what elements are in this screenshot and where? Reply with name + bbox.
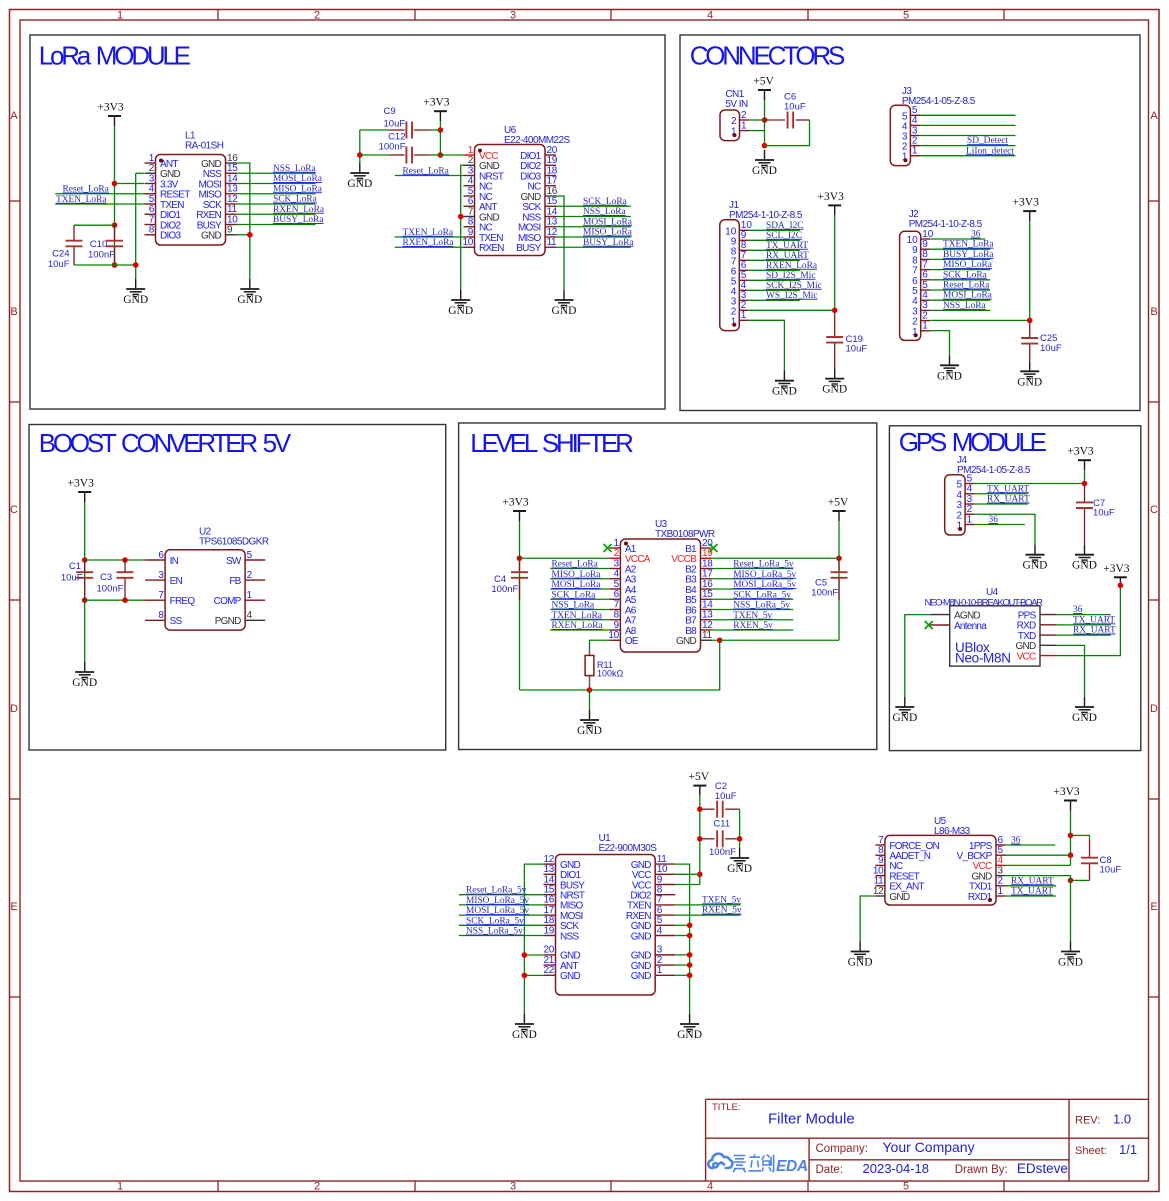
svg-text:GND: GND — [72, 677, 97, 689]
svg-text:5: 5 — [247, 550, 253, 561]
wire AGND to ground — [905, 615, 930, 697]
capacitor C9 leads — [390, 129, 405, 131]
svg-text:SCK_LoRa_5v: SCK_LoRa_5v — [733, 590, 791, 600]
J2 pin 5 — [912, 280, 930, 297]
level shifter U3 TXB0108PWR pin 17 (B3) — [685, 569, 713, 586]
svg-text:MOSI_LoRa: MOSI_LoRa — [943, 291, 993, 301]
module U5 L86-M33 pin 5 (V_BCKP) — [957, 845, 1006, 862]
wire BUSY_LoRa (J2) — [930, 258, 990, 260]
section box: LoRa MODULE — [30, 35, 665, 409]
svg-text:1: 1 — [117, 10, 123, 22]
capacitor C19 — [826, 337, 843, 343]
level shifter U3 TXB0108PWR pin 14 (B6) — [685, 599, 713, 616]
wire SCL_I2C (J1) — [749, 239, 800, 241]
svg-text:GND: GND — [822, 384, 847, 396]
svg-text:NEO-M8N-0-10-BREAKOUT-BOAR: NEO-M8N-0-10-BREAKOUT-BOAR — [925, 597, 1044, 608]
wire J1 pin2 to +3V3 — [749, 309, 835, 311]
capacitor C11 leads — [700, 838, 715, 840]
ground (U1 left) — [512, 1014, 537, 1041]
svg-text:2: 2 — [314, 1181, 320, 1193]
junction — [112, 262, 118, 268]
svg-text:C: C — [10, 504, 18, 516]
svg-text:EN: EN — [170, 576, 183, 587]
svg-text:RXEN_LoRa: RXEN_LoRa — [766, 261, 818, 271]
svg-text:GND: GND — [448, 305, 473, 317]
junction — [687, 962, 693, 968]
junction — [522, 952, 528, 958]
svg-text:MOSI_LoRa: MOSI_LoRa — [583, 217, 633, 227]
J2 pin 1 — [912, 321, 930, 338]
module U1 E22-900M30S pin 17 (MOSI) — [543, 905, 582, 922]
svg-text:+3V3: +3V3 — [423, 97, 450, 109]
svg-text:NSS_LoRa: NSS_LoRa — [552, 601, 596, 611]
wire RX_UART (U4) — [1057, 634, 1111, 636]
J2 pin 2 — [912, 310, 930, 327]
svg-text:10uF: 10uF — [846, 344, 868, 355]
J1 pin 9 — [731, 230, 749, 247]
junction — [697, 836, 703, 842]
wire U1 GND pin — [675, 935, 689, 937]
module U6 E22-400MM22S pin 3 (NRST) — [464, 165, 504, 182]
svg-text:Reset_LoRa: Reset_LoRa — [403, 166, 450, 176]
svg-text:LoRa MODULE: LoRa MODULE — [39, 41, 191, 71]
svg-text:AGND: AGND — [954, 610, 980, 621]
svg-text:NSS_LoRa: NSS_LoRa — [273, 164, 317, 174]
svg-text:SCL_I2C: SCL_I2C — [766, 231, 802, 241]
svg-text:GND: GND — [1072, 560, 1097, 572]
svg-text:TXEN_LoRa: TXEN_LoRa — [943, 240, 994, 250]
svg-text:+3V3: +3V3 — [502, 497, 529, 509]
ground (AGND) — [892, 697, 917, 724]
junction — [587, 687, 593, 693]
wire J2 pin1 GND — [930, 331, 949, 356]
section box: CONNECTORS — [680, 35, 1140, 411]
level shifter U3 TXB0108PWR pin 8 (A7) — [609, 610, 636, 627]
svg-text:MOSI_LoRa: MOSI_LoRa — [552, 580, 602, 590]
regulator U2 TPS61085DGKR pin 1 (COMP) — [214, 590, 266, 607]
J2 pin 6 — [912, 270, 930, 287]
svg-text:10uF: 10uF — [1093, 508, 1115, 519]
svg-text:E22-900M30S: E22-900M30S — [599, 843, 658, 854]
svg-text:MISO_LoRa: MISO_LoRa — [552, 570, 602, 580]
power +3V3 (U4) — [1103, 563, 1130, 588]
J4 pin-1 mark — [958, 527, 962, 531]
J1 pin 2 — [731, 300, 749, 317]
module L1 RA-01SH pin 11 (RXEN) — [196, 204, 237, 221]
junction — [697, 806, 703, 812]
wire U4 GND down — [1057, 645, 1085, 697]
module U6 E22-400MM22S pin 5 (NC) — [464, 186, 493, 203]
wire Reset_LoRa (J2) — [930, 289, 990, 291]
svg-text:2: 2 — [314, 10, 320, 22]
capacitor C5 — [831, 572, 848, 578]
svg-text:A: A — [10, 110, 18, 122]
wire U5 GND down — [1006, 876, 1071, 942]
capacitor C2 — [717, 801, 723, 818]
svg-text:REV:: REV: — [1075, 1115, 1100, 1127]
J1 pin 6 — [731, 260, 749, 277]
module U5 L86-M33 — [885, 835, 996, 905]
junction — [737, 836, 743, 842]
svg-text:GND: GND — [848, 957, 873, 969]
module U6 E22-400MM22S pin 16 (GND) — [521, 186, 558, 203]
svg-text:RX_UART: RX_UART — [1011, 876, 1054, 886]
capacitor C12 leads — [390, 154, 405, 156]
svg-text:7: 7 — [158, 590, 164, 601]
module U5 L86-M33 pin 12 (GND) — [873, 886, 910, 903]
wire CN1 pin2 to +5V — [749, 119, 765, 121]
wire TXEN_LoRa to U6 pin9 — [395, 236, 464, 238]
U4 pin RXD — [1040, 624, 1057, 626]
svg-text:PGND: PGND — [215, 616, 241, 627]
svg-text:Reset_LoRa_5v: Reset_LoRa_5v — [733, 560, 794, 570]
wire +3V3 to VCCA — [520, 557, 611, 559]
module U1 E22-900M30S pin 12 (GND) — [543, 854, 580, 871]
junction — [762, 143, 768, 149]
capacitor C2 leads — [700, 808, 715, 810]
J4 pin 5 — [957, 473, 975, 490]
wire net 36 (U5 1PPS) — [1006, 844, 1056, 846]
module L1 RA-01SH pin 15 (NSS) — [203, 163, 239, 180]
svg-text:11: 11 — [547, 237, 558, 248]
wire U5 pin12 GND — [860, 896, 875, 942]
svg-text:BUSY_LoRa: BUSY_LoRa — [943, 250, 994, 260]
wire U3 GND to bottom rail — [520, 640, 720, 690]
svg-text:RA-01SH: RA-01SH — [185, 141, 224, 152]
wire Reset_LoRa_5v (U1) — [459, 894, 544, 896]
svg-text:D: D — [10, 703, 18, 715]
level shifter U3 TXB0108PWR pin 11 (GND) — [676, 630, 713, 647]
J2 — [900, 231, 921, 340]
svg-text:2: 2 — [731, 116, 737, 127]
svg-text:Reset_LoRa: Reset_LoRa — [943, 281, 990, 291]
power +3V3 (U6) — [423, 97, 450, 122]
wire MOSI_LoRa (J2) — [930, 299, 990, 301]
module U5 L86-M33 pin 2 (TXD1) — [969, 876, 1006, 893]
module U6 E22-400MM22S pin 8 (NC) — [464, 217, 493, 234]
wire L1 pin16 GND down — [237, 163, 250, 279]
svg-text:C24: C24 — [52, 249, 69, 260]
svg-text:+5V: +5V — [753, 76, 774, 88]
svg-text:1: 1 — [657, 965, 663, 976]
module U5 L86-M33 pin 3 (GND) — [972, 865, 1006, 882]
svg-text:SS: SS — [170, 616, 183, 627]
module U6 E22-400MM22S pin 10 (RXEN) — [462, 237, 504, 254]
module L1 RA-01SH pin 10 (BUSY) — [197, 214, 238, 231]
svg-text:4: 4 — [707, 10, 713, 22]
module U1 E22-900M30S pin 7 (TXEN) — [627, 895, 675, 912]
module L1 RA-01SH pin 5 (TXEN) — [145, 194, 185, 211]
svg-text:MISO_LoRa_5v: MISO_LoRa_5v — [733, 570, 796, 580]
J2 pin 4 — [912, 290, 930, 307]
wire NSS_LoRa_5v (U3) — [712, 609, 794, 611]
svg-text:GND: GND — [631, 971, 652, 982]
wire U5 VCC to +3V3 — [1006, 864, 1071, 866]
wire bottom rail to GND — [74, 264, 136, 266]
svg-text:GND: GND — [577, 725, 602, 737]
wire J3 pin 3 — [920, 135, 1016, 137]
ground (J1) — [772, 371, 797, 398]
module U6 E22-400MM22S pin 2 (GND) — [464, 155, 500, 172]
capacitor C12 — [406, 147, 412, 164]
wire NSS_LoRa (U6) — [556, 216, 631, 218]
module U5 L86-M33 pin 8 (AADET_N) — [875, 845, 930, 862]
J1 pin-1 mark — [732, 323, 736, 327]
wire MISO_LoRa — [237, 193, 316, 195]
power +3V3 (U2) — [68, 478, 95, 503]
level shifter U3 TXB0108PWR pin 20 (B1) — [685, 538, 713, 555]
wire SCK_LoRa_5v (U3) — [712, 598, 794, 600]
wire J4 pin5 to +3V3 — [975, 483, 1085, 485]
power +3V3 (J2) — [1013, 197, 1040, 222]
U4 pin GND — [1040, 644, 1057, 646]
J1 — [720, 220, 740, 331]
module U6 E22-400MM22S — [475, 145, 546, 256]
junction — [687, 972, 693, 978]
svg-text:Filter Module: Filter Module — [768, 1111, 855, 1128]
svg-text:GND: GND — [1072, 712, 1097, 724]
wire RXEN_LoRa to U6 pin10 — [395, 246, 464, 248]
module U5 L86-M33 pin 4 (VCC) — [973, 855, 1006, 872]
wire to C12 — [360, 154, 390, 156]
svg-text:+3V3: +3V3 — [1053, 786, 1080, 798]
wire Reset_LoRa to L1 pin4 — [55, 193, 144, 195]
svg-text:36: 36 — [1011, 836, 1021, 846]
junction — [1068, 852, 1074, 858]
power +3V3 (U3) — [502, 497, 529, 522]
svg-text:36: 36 — [989, 515, 999, 525]
CN1 pin-1 mark — [733, 133, 737, 137]
svg-text:OE: OE — [625, 636, 639, 647]
wire RX_UART (U5) — [1006, 885, 1057, 887]
svg-text:DIO3: DIO3 — [160, 231, 182, 242]
capacitor C7 — [1076, 502, 1093, 508]
wire CN1 pin1 — [749, 130, 765, 132]
J1 pin 5 — [731, 270, 749, 287]
module L1 RA-01SH pin 2 (GND) — [145, 163, 181, 180]
module U6 E22-400MM22S pin 15 (SCK) — [522, 196, 558, 213]
wire RXEN_5v (U1) — [675, 914, 740, 916]
module L1 RA-01SH pin 1 (ANT) — [145, 153, 179, 170]
wire RXEN_LoRa — [237, 213, 316, 215]
module U6 E22-400MM22S pin 12 (MISO) — [518, 227, 558, 244]
svg-text:TPS61085DGKR: TPS61085DGKR — [199, 537, 269, 548]
svg-text:GND: GND — [676, 636, 697, 647]
level shifter U3 TXB0108PWR pin 7 (A6) — [609, 599, 636, 616]
module L1 RA-01SH pin 6 (DIO1) — [145, 204, 182, 221]
svg-text:LiIon_detect: LiIon_detect — [966, 146, 1014, 156]
wire MISO_LoRa (U6) — [556, 236, 631, 238]
svg-text:5: 5 — [903, 10, 909, 22]
power +3V3 (U5) — [1053, 786, 1080, 811]
capacitor C3 — [117, 572, 134, 578]
svg-text:GND: GND — [631, 931, 652, 942]
wire +3V3 rail (J1) — [834, 215, 836, 310]
section box: LEVEL SHIFTER — [459, 423, 877, 750]
J4 pin 4 — [957, 484, 975, 501]
regulator U2 TPS61085DGKR pin 3 (EN) — [145, 570, 182, 587]
svg-text:12: 12 — [873, 886, 884, 897]
capacitor C24 — [66, 241, 83, 247]
level shifter U3 TXB0108PWR pin 13 (B7) — [685, 610, 713, 627]
junction — [1068, 833, 1074, 839]
svg-text:GPS MODULE: GPS MODULE — [899, 427, 1047, 457]
capacitor C10 leads — [114, 225, 116, 241]
no-connect U3 pin1 — [604, 544, 612, 552]
module U5 L86-M33 pin 6 (1PPS) — [969, 835, 1006, 852]
svg-text:Reset_LoRa: Reset_LoRa — [552, 560, 599, 570]
svg-text:E: E — [1150, 901, 1157, 913]
wire BUSY_LoRa — [237, 224, 316, 226]
module U6 E22-400MM22S pin 7 (GND) — [464, 206, 500, 223]
svg-text:B: B — [10, 306, 17, 318]
svg-text:E22-400MM22S: E22-400MM22S — [504, 135, 571, 146]
junction — [357, 152, 363, 158]
wire +5V rail (U3/C5) — [838, 521, 840, 640]
ground (U2) — [72, 662, 97, 689]
module U5 L86-M33 pin 1 (RXD1) — [968, 886, 1006, 903]
module L1 RA-01SH pin 8 (DIO3) — [145, 225, 182, 242]
svg-text:SCK_I2S_Mic: SCK_I2S_Mic — [766, 281, 822, 291]
svg-text:IN: IN — [170, 556, 179, 567]
regulator U2 TPS61085DGKR — [165, 550, 245, 630]
regulator U2 TPS61085DGKR pin 6 (IN) — [145, 550, 179, 567]
svg-text:2: 2 — [741, 110, 747, 121]
power +5V (U3) — [828, 497, 849, 522]
capacitor C4 leads — [519, 558, 521, 572]
regulator U2 TPS61085DGKR pin 4 (PGND) — [215, 610, 265, 627]
regulator U2 TPS61085DGKR pin 2 (FB) — [229, 570, 265, 587]
svg-text:+3V3: +3V3 — [1067, 446, 1094, 458]
junction — [717, 637, 723, 643]
J1 pin 7 — [731, 250, 749, 267]
svg-text:MISO_LoRa: MISO_LoRa — [583, 228, 633, 238]
power +5V (CN1) — [753, 76, 774, 101]
wire SCK_I2S_Mic (J1) — [749, 289, 800, 291]
J1 pin 4 — [731, 280, 749, 297]
svg-text:10uF: 10uF — [61, 573, 83, 584]
svg-text:+3V3: +3V3 — [1103, 563, 1130, 575]
svg-text:NSS_LoRa: NSS_LoRa — [943, 301, 987, 311]
wire MISO_LoRa (J2) — [930, 269, 990, 271]
wire TX_UART (U5) — [1006, 895, 1057, 897]
wire TXEN_LoRa (U3) — [550, 619, 609, 621]
ground (U5 right) — [1058, 942, 1083, 969]
svg-text:B: B — [1150, 306, 1157, 318]
svg-text:4: 4 — [657, 925, 663, 936]
svg-text:Neo-M8N: Neo-M8N — [955, 651, 1011, 666]
svg-text:GND: GND — [1058, 957, 1083, 969]
resistor R11 — [585, 655, 594, 675]
level shifter U3 TXB0108PWR pin 18 (B2) — [685, 558, 713, 575]
J2 pin 7 — [912, 259, 930, 276]
wire RXEN_LoRa (U3) — [550, 629, 609, 631]
wire to U2 pin7 — [85, 599, 146, 601]
module U1 E22-900M30S pin 14 (BUSY) — [543, 874, 585, 891]
wire WS_I2S_Mic (J1) — [749, 299, 800, 301]
wire Reset_LoRa (U3) — [550, 568, 609, 570]
junction — [687, 923, 693, 929]
svg-text:SD_Detect: SD_Detect — [967, 136, 1009, 146]
wire U1 pin10 VCC — [675, 873, 700, 875]
svg-text:E: E — [10, 901, 17, 913]
wire OE to R11 — [590, 640, 610, 646]
wire TXEN_5v (U3) — [712, 619, 794, 621]
wire NSS_LoRa — [237, 172, 316, 174]
capacitor C7 leads — [1084, 484, 1086, 503]
module U1 E22-900M30S pin 6 (RXEN) — [626, 905, 675, 922]
junction — [762, 117, 768, 123]
junction — [247, 232, 253, 238]
wire +3V3 to L1 pin3 — [115, 183, 145, 185]
module U6 E22-400MM22S pin 17 (NC) — [528, 176, 558, 193]
wire U4 VCC to +3V3 — [1057, 585, 1121, 655]
svg-text:6: 6 — [158, 550, 164, 561]
svg-text:GND: GND — [752, 165, 777, 177]
module U1 E22-900M30S pin 11 (GND) — [631, 854, 675, 871]
svg-text:RX_UART: RX_UART — [766, 251, 809, 261]
wire U1 GND pin — [675, 954, 689, 956]
svg-text:100nF: 100nF — [491, 584, 518, 595]
J3 pin 1 — [902, 146, 920, 163]
module L1 RA-01SH pin 12 (SCK) — [203, 194, 239, 211]
U4 pin TXD — [1040, 634, 1057, 636]
level shifter U3 TXB0108PWR pin 9 (A8) — [609, 620, 636, 637]
module U1 E22-900M30S pin 9 (VCC) — [632, 874, 675, 891]
module U1 E22-900M30S pin 2 (GND) — [631, 955, 675, 972]
wire LiIon_detect — [920, 155, 1016, 157]
wire U1 pin22 GND — [524, 974, 543, 976]
module L1 RA-01SH pin 13 (MISO) — [198, 184, 238, 201]
svg-text:+3V3: +3V3 — [97, 102, 124, 114]
junction — [1027, 318, 1033, 324]
wire TXEN_LoRa (J2) — [930, 248, 990, 250]
module U1 E22-900M30S pin 18 (SCK) — [543, 915, 579, 932]
capacitor C6 leads — [765, 119, 786, 121]
svg-text:Reset_LoRa: Reset_LoRa — [63, 185, 110, 195]
svg-text:1: 1 — [741, 120, 747, 131]
junction — [458, 214, 464, 220]
J2 pin 8 — [912, 249, 930, 266]
wire U6 pin7 GND — [461, 216, 464, 218]
wire RX_UART (J1) — [749, 259, 800, 261]
svg-text:EDsteve: EDsteve — [1017, 1161, 1068, 1176]
svg-text:3: 3 — [510, 1181, 516, 1193]
ground (R11) — [577, 710, 602, 737]
CN1 pin 1 — [731, 120, 749, 137]
wire to ground (R11) — [589, 690, 591, 710]
svg-text:RXEN: RXEN — [479, 243, 504, 254]
no-connect U4 Antenna — [925, 621, 933, 629]
junction — [517, 555, 523, 561]
level shifter U3 TXB0108PWR pin 4 (A3) — [609, 569, 636, 586]
svg-text:TXEN_LoRa: TXEN_LoRa — [552, 611, 603, 621]
module U6 E22-400MM22S pin 4 (NC) — [464, 176, 493, 193]
ground (C7) — [1072, 545, 1097, 572]
svg-text:1: 1 — [117, 1181, 123, 1193]
svg-text:+3V3: +3V3 — [1013, 197, 1040, 209]
module L1 RA-01SH pin 3 (3.3V) — [145, 173, 179, 190]
wire TX_UART (J4) — [975, 493, 1028, 495]
svg-text:1: 1 — [912, 146, 918, 157]
svg-text:GND: GND — [892, 712, 917, 724]
wire SCK_LoRa (U6) — [556, 205, 631, 207]
wire C2/C11 right rail — [739, 809, 741, 848]
svg-text:TXEN_LoRa: TXEN_LoRa — [403, 228, 454, 238]
level shifter U3 TXB0108PWR pin 1 (A1) — [609, 538, 636, 555]
power +3V3 (J4) — [1067, 446, 1094, 471]
svg-text:10uF: 10uF — [48, 259, 70, 270]
